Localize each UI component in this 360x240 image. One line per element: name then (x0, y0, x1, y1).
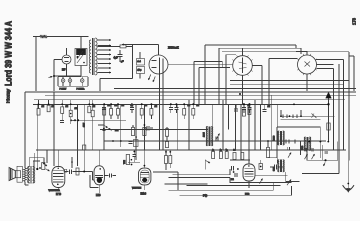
svg-text:ZK03n/Z: ZK03n/Z (168, 46, 179, 50)
svg-text:4μF: 4μF (114, 57, 119, 60)
svg-text:25n: 25n (115, 130, 118, 132)
svg-text:173: 173 (352, 17, 357, 25)
svg-text:T8N: T8N (124, 160, 126, 164)
svg-text:POKWa: POKWa (77, 89, 86, 91)
svg-text:VKWSTKNA: VKWSTKNA (49, 189, 61, 192)
svg-text:F43: F43 (245, 193, 250, 196)
svg-text:POKW: POKW (60, 89, 68, 91)
svg-text:Horny: Horny (6, 88, 11, 103)
svg-text:LKB: LKB (96, 194, 101, 197)
svg-text:3000: 3000 (274, 167, 276, 171)
svg-text:1n: 1n (220, 150, 222, 152)
svg-text:5n: 5n (226, 150, 228, 152)
svg-text:E T3: E T3 (56, 193, 62, 196)
svg-text:7000: 7000 (302, 146, 304, 150)
svg-text:M4: M4 (231, 179, 234, 181)
svg-text:F4β: F4β (203, 195, 208, 198)
svg-text:E4b3: E4b3 (141, 192, 147, 195)
svg-text:i2F: i2F (62, 69, 66, 72)
svg-text:2n: 2n (233, 150, 235, 152)
svg-text:10000: 10000 (274, 136, 276, 141)
svg-text:Lord 39 W W 344 A: Lord 39 W W 344 A (4, 20, 14, 86)
svg-text:4n: 4n (212, 150, 214, 152)
svg-text:VKW5TKN: VKW5TKN (132, 188, 142, 190)
